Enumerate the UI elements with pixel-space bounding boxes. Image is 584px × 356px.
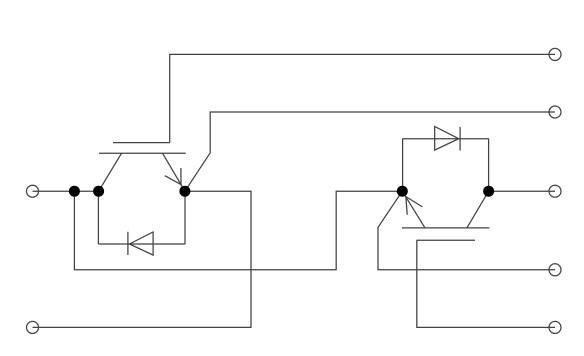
transistor Q1 gate bar	[113, 142, 170, 144]
node N5	[483, 186, 494, 197]
transistor Q2 collector lead	[467, 191, 489, 228]
terminal E2aux right	[549, 264, 561, 276]
node N4	[397, 186, 408, 197]
diode D2 loop right leg	[488, 139, 490, 192]
wire emitter aux Q1 to terminal E1 (second wire)	[185, 112, 555, 191]
terminal C1 left mid	[27, 185, 39, 197]
diode D2 triangle	[435, 127, 459, 151]
transistor Q1 body bar	[99, 152, 186, 154]
wire emitter aux Q2 to terminal E2	[378, 191, 555, 270]
diode D2 wire	[403, 138, 489, 140]
diode D2 loop left leg	[402, 139, 404, 192]
transistor Q1 emitter lead	[163, 153, 185, 191]
diode D1 wire	[98, 243, 185, 245]
terminal G1 right top	[549, 48, 561, 60]
node N1	[69, 186, 80, 197]
transistor Q1 collector lead	[99, 153, 122, 191]
terminal E1aux right	[549, 106, 561, 118]
diode D1 cathode bar	[127, 232, 129, 255]
wire gate lead Q2 to terminal G2	[417, 240, 555, 327]
wire series connection N1 to N4	[74, 191, 402, 270]
terminal C2 right mid	[549, 185, 561, 197]
diode D2 cathode bar	[459, 127, 461, 151]
wire node N3 right then down to bottom-left terminal	[33, 191, 252, 327]
diode D1 triangle	[129, 232, 153, 255]
transistor Q2 emitter lead	[402, 191, 425, 228]
transistor Q2 body bar	[402, 227, 489, 229]
diode D1 loop left leg	[97, 191, 99, 244]
wire left collector terminal C1 to node row	[33, 190, 99, 192]
terminal E1 left bottom	[27, 321, 39, 333]
transistor Q1 emitter arrow	[165, 168, 181, 185]
node N3	[179, 186, 190, 197]
diode D1 loop right leg	[184, 191, 186, 244]
transistor Q2 emitter arrow	[406, 197, 423, 215]
node N2	[93, 186, 104, 197]
terminal G2 right bottom	[549, 321, 561, 333]
wire node N5 to right mid terminal	[489, 190, 555, 192]
wire gate lead Q1 to terminal G1 (top wire)	[170, 54, 555, 142]
transistor Q2 gate bar	[417, 239, 475, 241]
